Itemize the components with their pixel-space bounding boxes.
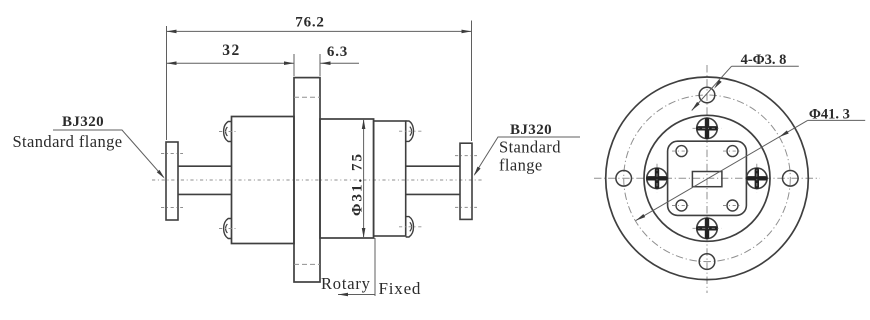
dimension 6.3 line with outside arrow (321, 62, 360, 64)
left flange bolt hole centerline bottom (161, 207, 183, 209)
right flange bolt hole centerline bottom (455, 206, 477, 208)
outer flange circle (606, 77, 809, 280)
bolt circle dash-dot (624, 95, 791, 262)
left flange bolt hole centerline top (161, 153, 183, 155)
cross screw bottom (697, 218, 718, 239)
right block top screw (406, 121, 414, 141)
front view horizontal centerline (594, 177, 820, 179)
svg-text:Φ41. 3: Φ41. 3 (809, 107, 850, 123)
svg-text:BJ320: BJ320 (62, 114, 104, 130)
right waveguide flange plate (460, 143, 472, 219)
Phi41.3 leader underline (808, 119, 866, 121)
bolt hole right (783, 171, 799, 187)
right flange bolt hole centerline top (455, 155, 477, 157)
disc hidden line top (294, 96, 320, 98)
rotary direction arrow (338, 294, 375, 296)
cross screw right (747, 168, 768, 189)
right waveguide tube bottom wall (406, 193, 460, 195)
right body block (fixed side) (320, 119, 374, 238)
inner circle (644, 115, 770, 241)
svg-text:Standard flange: Standard flange (12, 132, 122, 151)
left waveguide tube top wall (178, 165, 232, 167)
dimension 76.2 line (167, 30, 472, 32)
left waveguide tube bottom wall (178, 193, 232, 195)
svg-text:flange: flange (499, 156, 543, 175)
svg-text:BJ320: BJ320 (510, 122, 552, 138)
4-Phi3.8 leader underline (732, 65, 799, 67)
extension line x=294 (293, 54, 295, 76)
left waveguide flange plate (166, 142, 178, 220)
corner hole bottom-left (676, 200, 687, 211)
small fixed flange block (374, 121, 406, 236)
4-Phi3.8 leader line (692, 66, 732, 110)
disc hidden line bottom (294, 263, 320, 265)
dimension Phi31.75 line (363, 119, 365, 238)
svg-text:32: 32 (222, 42, 241, 59)
front view vertical centerline (706, 65, 708, 293)
rotary/fixed divider line (374, 238, 376, 296)
extension line x=320 (319, 54, 321, 76)
Phi41.3 diameter leader line (636, 120, 808, 220)
cross screw left (647, 168, 668, 189)
svg-text:76.2: 76.2 (295, 14, 324, 30)
right waveguide tube top wall (406, 165, 460, 167)
left body block (rotary side) (232, 117, 295, 244)
svg-text:Rotary: Rotary (321, 274, 371, 293)
extension line left x=166.5 (166, 26, 168, 140)
corner hole top-right (727, 146, 738, 157)
bolt hole top (699, 87, 715, 103)
bolt hole bottom (699, 254, 715, 270)
svg-text:Standard: Standard (499, 138, 561, 157)
svg-text:6.3: 6.3 (327, 44, 348, 60)
leader line left flange (53, 130, 164, 177)
svg-text:4-Φ3. 8: 4-Φ3. 8 (741, 52, 787, 68)
dimension 32 line (167, 62, 295, 64)
svg-text:Fixed: Fixed (379, 279, 422, 298)
corner hole top-left (676, 146, 687, 157)
leader line right flange (475, 137, 581, 175)
extension line right x=471.5 (471, 21, 473, 142)
waveguide aperture rectangle (692, 172, 722, 187)
corner hole bottom-right (727, 200, 738, 211)
left block bottom screw (224, 219, 232, 239)
inner square flange (668, 141, 747, 215)
cross screw top (697, 118, 718, 139)
left block top screw (224, 122, 232, 142)
main horizontal centerline (152, 179, 482, 181)
rotary flange disc (294, 78, 320, 282)
svg-text:Φ31. 75: Φ31. 75 (350, 152, 366, 216)
bolt hole left (616, 171, 632, 187)
right block bottom screw (406, 217, 414, 237)
